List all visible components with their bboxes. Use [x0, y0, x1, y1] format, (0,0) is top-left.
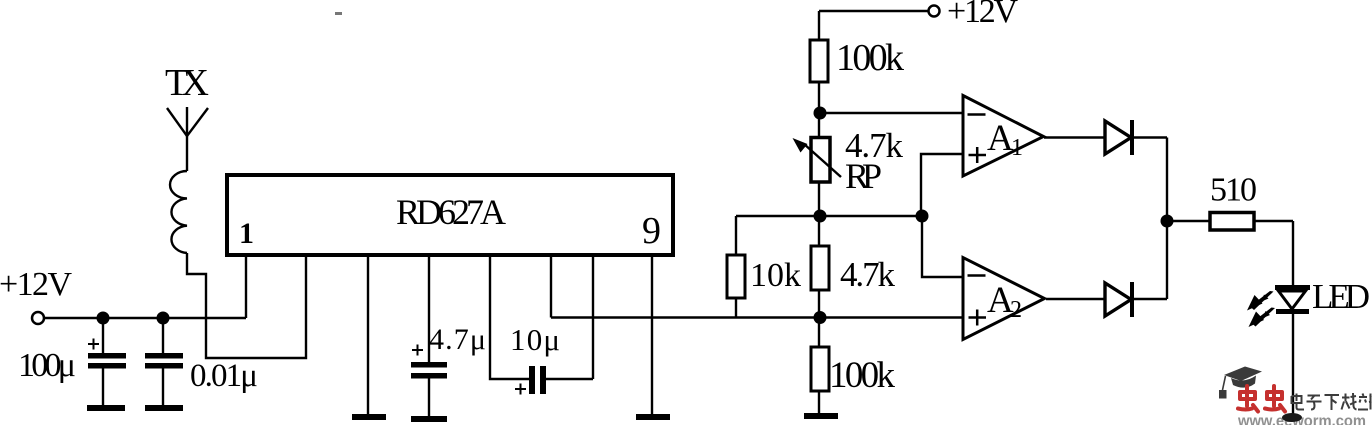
svg-text:RP: RP: [845, 156, 882, 196]
svg-text:+12V: +12V: [947, 0, 1018, 30]
svg-text:www.eeworm.com: www.eeworm.com: [1237, 413, 1366, 425]
svg-text:A: A: [987, 118, 1014, 159]
svg-text:TX: TX: [165, 62, 209, 104]
svg-text:10k: 10k: [750, 257, 801, 294]
svg-text:10μ: 10μ: [510, 322, 560, 357]
svg-text:1: 1: [1011, 135, 1023, 161]
svg-text:1: 1: [239, 217, 254, 250]
svg-text:4.7μ: 4.7μ: [429, 323, 486, 356]
svg-text:2: 2: [1010, 297, 1022, 323]
svg-text:LED: LED: [1312, 277, 1370, 316]
svg-text:100k: 100k: [829, 355, 896, 396]
svg-text:RD627A: RD627A: [396, 192, 506, 232]
svg-text:9: 9: [642, 210, 661, 252]
svg-text:100μ: 100μ: [18, 347, 76, 384]
svg-text:4.7k: 4.7k: [840, 255, 896, 294]
svg-text:+12V: +12V: [0, 266, 72, 303]
svg-text:510: 510: [1210, 172, 1257, 209]
svg-text:0.01μ: 0.01μ: [190, 358, 258, 394]
svg-text:100k: 100k: [836, 37, 904, 79]
